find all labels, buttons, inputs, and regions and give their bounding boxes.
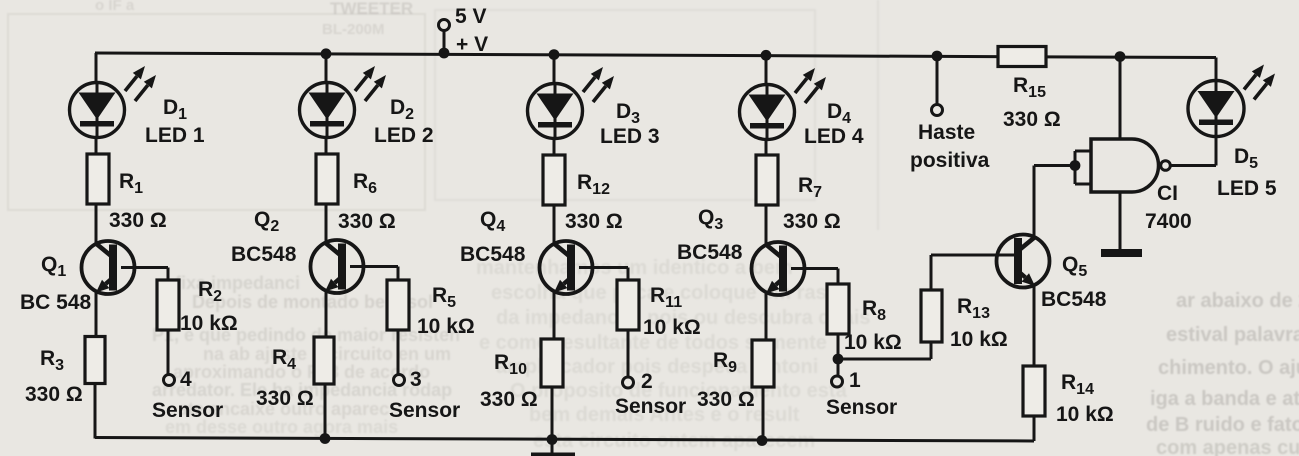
- svg-text:330 Ω: 330 Ω: [565, 210, 623, 233]
- LED D4: [740, 68, 827, 140]
- resistor R10 (330 ohm): [541, 339, 563, 387]
- wire: [324, 384, 327, 439]
- svg-text:330 Ω: 330 Ω: [109, 209, 167, 232]
- wire: Q5 collector to gate inputs: [1033, 166, 1036, 238]
- svg-text:de B ruido e fato ora TP e: de B ruido e fato ora TP e leve: [1146, 414, 1299, 436]
- LED D1: [70, 66, 157, 138]
- svg-text:iga a banda e ate o toque en e: iga a banda e ate o toque en eler: [1150, 388, 1299, 410]
- svg-text:BL-200M: BL-200M: [322, 21, 385, 38]
- wire: [1215, 137, 1218, 166]
- junction on +V rail: [549, 49, 560, 60]
- terminal: sensor 4: [164, 375, 175, 386]
- wire: [837, 334, 840, 358]
- wire: Q3 base: [791, 267, 838, 270]
- svg-text:BC548: BC548: [231, 243, 297, 266]
- svg-text:D2: D2: [390, 96, 414, 123]
- resistor R15 (330 ohm): [998, 47, 1046, 67]
- svg-text:10 kΩ: 10 kΩ: [643, 316, 701, 339]
- wire: [397, 330, 400, 375]
- ground symbol (CI 7400): [1101, 249, 1142, 257]
- wire: [95, 53, 98, 83]
- wire: [95, 138, 98, 155]
- svg-text:positiva: positiva: [910, 149, 990, 172]
- inverter bubble (gate output): [1161, 161, 1171, 171]
- ground symbol (bottom): [531, 453, 575, 456]
- wire: +V supply rail: [95, 53, 1216, 58]
- resistor R13 (10 k): [921, 290, 942, 342]
- svg-text:+ V: + V: [456, 33, 488, 56]
- wire: [837, 359, 840, 375]
- wire: rail corner to D5: [1215, 58, 1218, 82]
- svg-text:Q1: Q1: [41, 253, 66, 280]
- wire: gate output to D5: [1171, 164, 1216, 167]
- resistor R6 (330 ohm): [316, 154, 338, 204]
- junction on +V rail (haste): [932, 51, 943, 62]
- terminal: sensor 2: [623, 377, 634, 388]
- svg-text:o IF a: o IF a: [95, 0, 135, 14]
- svg-text:10 kΩ: 10 kΩ: [180, 312, 238, 335]
- resistor R1 (330 ohm): [87, 154, 109, 204]
- svg-text:3: 3: [410, 368, 422, 391]
- svg-text:BC 548: BC 548: [20, 291, 92, 314]
- svg-text:R14: R14: [1061, 371, 1094, 398]
- resistor R7 (330 ohm): [756, 155, 778, 205]
- svg-text:10 kΩ: 10 kΩ: [950, 328, 1008, 351]
- wire: [553, 139, 556, 156]
- svg-text:R12: R12: [577, 171, 610, 198]
- svg-text:2: 2: [641, 370, 653, 393]
- svg-text:R7: R7: [798, 174, 822, 201]
- svg-text:R6: R6: [353, 170, 377, 197]
- junction on ground rail: [320, 433, 331, 444]
- resistor R5 (10 k): [387, 280, 409, 330]
- svg-text:CI: CI: [1157, 182, 1178, 205]
- wire: [936, 56, 939, 105]
- svg-text:1: 1: [849, 369, 861, 392]
- svg-text:fixa impedanci: fixa impedanci: [175, 273, 300, 293]
- svg-text:R8: R8: [862, 297, 886, 324]
- wire: [553, 205, 556, 244]
- svg-text:10 kΩ: 10 kΩ: [1056, 403, 1114, 426]
- svg-text:Sensor: Sensor: [389, 399, 460, 422]
- svg-text:Sensor: Sensor: [615, 395, 686, 418]
- junction node (R8/R13/sensor1): [833, 354, 844, 365]
- transistor Q2 (BC548): [311, 240, 364, 293]
- svg-text:estival palavras com 4 bolinha: estival palavras com 4 bolinha: [1166, 324, 1299, 346]
- NAND gate U1 (CI 7400): [1091, 139, 1159, 192]
- junction on +V rail: [761, 50, 772, 61]
- wire: R8 junction to R13: [838, 358, 931, 361]
- svg-text:Q5: Q5: [1062, 253, 1087, 280]
- junction on ground rail: [757, 435, 768, 446]
- svg-text:LED 1: LED 1: [145, 124, 205, 147]
- terminal: sensor 3: [394, 375, 405, 386]
- wire: [94, 384, 97, 439]
- wire: [95, 204, 98, 244]
- svg-text:Q2: Q2: [254, 208, 279, 235]
- terminal: haste positiva: [932, 105, 943, 116]
- svg-text:R3: R3: [40, 347, 64, 374]
- svg-text:LED 5: LED 5: [1217, 177, 1277, 200]
- svg-text:BC548: BC548: [1041, 288, 1107, 311]
- resistor R8 (10 k): [827, 284, 849, 334]
- transistor Q1 (BC548): [82, 241, 135, 294]
- wire: [325, 138, 328, 155]
- wire: [762, 387, 765, 441]
- svg-text:D4: D4: [827, 100, 851, 127]
- resistor R4 (330 ohm): [314, 337, 334, 384]
- LED D2: [300, 66, 387, 138]
- resistor R11 (10 k): [617, 280, 639, 330]
- svg-text:D1: D1: [163, 96, 187, 123]
- wire: [325, 204, 328, 243]
- svg-text:com apenas curva aparecen: com apenas curva aparecen: [1156, 437, 1299, 456]
- terminal: 5 V supply input: [439, 20, 450, 31]
- svg-text:D5: D5: [1234, 145, 1258, 172]
- svg-text:5 V: 5 V: [455, 5, 487, 28]
- svg-text:BC548: BC548: [460, 243, 526, 266]
- LED D3: [528, 67, 615, 139]
- svg-text:Sensor: Sensor: [826, 396, 897, 419]
- wire: [627, 330, 630, 377]
- wire: ground rail: [95, 438, 1034, 442]
- svg-text:10 kΩ: 10 kΩ: [417, 315, 475, 338]
- wire: Q5 base to R13: [931, 254, 1014, 257]
- wire: [765, 55, 768, 85]
- svg-text:BC548: BC548: [677, 241, 743, 264]
- wire: [551, 387, 554, 439]
- wire: [443, 31, 446, 53]
- wire: [553, 55, 556, 84]
- wire: [930, 342, 933, 359]
- svg-text:aproximando o P13 de acordo: aproximando o P13 de acordo: [173, 362, 430, 382]
- svg-text:Q4: Q4: [480, 208, 505, 235]
- wire: [325, 54, 328, 83]
- svg-text:330 Ω: 330 Ω: [338, 210, 396, 233]
- junction on +V rail: [439, 48, 450, 59]
- wire: [765, 140, 768, 156]
- resistor R14 (10 k): [1023, 366, 1045, 416]
- svg-text:330 Ω: 330 Ω: [697, 388, 755, 411]
- terminal: sensor 1: [832, 376, 843, 387]
- resistor R2 (10 k): [157, 280, 179, 330]
- junction on +V rail: [321, 48, 332, 59]
- wire: Q4 base: [579, 266, 628, 269]
- svg-text:D3: D3: [616, 100, 640, 127]
- junction on +V rail (CI Vcc): [1115, 51, 1126, 62]
- svg-text:Q3: Q3: [698, 206, 723, 233]
- svg-text:chimento. O ajuste de fazer q: chimento. O ajuste de fazer que: [1158, 357, 1299, 379]
- svg-text:Haste: Haste: [918, 121, 975, 144]
- resistor R9 (330 ohm): [752, 340, 774, 387]
- svg-text:R5: R5: [432, 284, 456, 311]
- svg-text:4: 4: [180, 368, 192, 391]
- svg-text:R13: R13: [957, 295, 990, 322]
- wire: [551, 440, 554, 453]
- wire: CI Vcc: [1119, 57, 1122, 139]
- svg-text:R1: R1: [119, 170, 143, 197]
- resistor R3 (330 ohm): [85, 337, 105, 384]
- wire: [167, 330, 170, 375]
- wire: Q2 base: [350, 265, 398, 268]
- svg-text:330 Ω: 330 Ω: [783, 210, 841, 233]
- svg-text:7400: 7400: [1145, 210, 1192, 233]
- svg-text:ar abaixo de 20%, deve ser: ar abaixo de 20%, deve ser: [1176, 290, 1299, 312]
- resistor R12 (330 ohm): [543, 155, 565, 205]
- svg-text:330 Ω: 330 Ω: [480, 388, 538, 411]
- wire: gate input link: [1074, 151, 1077, 184]
- svg-text:LED 3: LED 3: [600, 125, 660, 148]
- junction at gate inputs: [1070, 160, 1081, 171]
- wire: [95, 292, 98, 337]
- svg-text:LED 2: LED 2: [374, 124, 434, 147]
- transistor Q5 (BC548): [997, 235, 1050, 288]
- wire: CI ground pin: [1119, 192, 1122, 250]
- LED D5: [1188, 65, 1275, 137]
- svg-text:LED 4: LED 4: [804, 125, 864, 148]
- svg-text:R15: R15: [1013, 74, 1046, 101]
- svg-text:10 kΩ: 10 kΩ: [844, 331, 902, 354]
- wire: Q1 base: [121, 266, 168, 269]
- wire: [1033, 416, 1036, 441]
- wire: [765, 205, 768, 245]
- wire: [553, 292, 556, 339]
- svg-text:330 Ω: 330 Ω: [1003, 108, 1061, 131]
- junction on ground rail: [547, 434, 558, 445]
- svg-text:330 Ω: 330 Ω: [256, 387, 314, 410]
- svg-text:330 Ω: 330 Ω: [25, 383, 83, 406]
- transistor Q3 (BC548): [752, 242, 805, 295]
- svg-text:Sensor: Sensor: [152, 399, 223, 422]
- transistor Q4 (BC548): [540, 241, 593, 294]
- wire: [765, 293, 768, 340]
- svg-text:TWEETER: TWEETER: [330, 0, 413, 18]
- wire: [1033, 286, 1036, 366]
- wire: [325, 291, 328, 337]
